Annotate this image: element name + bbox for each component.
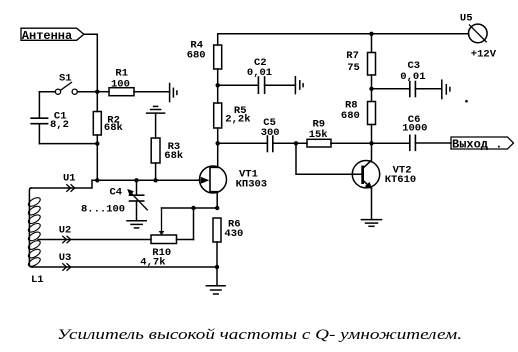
resistor R7: [346, 34, 375, 75]
wire R1 to ground: [134, 91, 170, 93]
transistor VT2: [352, 143, 416, 219]
node U1 tap chevrons: [67, 185, 75, 192]
wire R8 to collector node: [371, 125, 373, 144]
capacitor C6: [402, 114, 451, 150]
resistor R10 (potentiometer): [140, 208, 193, 269]
ground (right-facing) after R1: [170, 84, 177, 102]
node junction R6/U3/ground: [215, 265, 219, 269]
svg-text:КП303: КП303: [236, 178, 268, 190]
wire U1 step: [31, 180, 92, 188]
ground below C4: [127, 221, 146, 228]
wire C1 bottom to R2 bottom: [39, 143, 97, 145]
svg-text:Антенна: Антенна: [22, 29, 72, 43]
svg-text:C4: C4: [110, 187, 123, 199]
resistor R9: [307, 119, 331, 147]
capacitor C2: [218, 57, 296, 93]
stray dot: [465, 100, 468, 103]
ground (right-facing) after C3: [442, 80, 450, 98]
wire antenna to main vertical: [84, 34, 97, 91]
svg-text:68k: 68k: [104, 122, 123, 134]
wire source node line: [162, 207, 218, 209]
node junction R10 right leg: [191, 206, 195, 210]
svg-text:15k: 15k: [309, 129, 328, 141]
node junction C4/gate: [134, 178, 138, 182]
svg-text:680: 680: [341, 110, 360, 122]
resistor R8: [341, 99, 376, 124]
node junction source/R10 wire: [215, 206, 219, 210]
node junction C1/R2: [95, 141, 99, 145]
svg-text:2,2k: 2,2k: [225, 114, 250, 126]
capacitor C3: [372, 60, 442, 97]
svg-text:430: 430: [224, 228, 243, 240]
wire gate line: [92, 179, 200, 181]
switch S1: [39, 72, 97, 94]
ground (right-facing) after C2: [295, 77, 303, 94]
svg-text:75: 75: [347, 62, 360, 74]
resistor R4: [187, 39, 222, 69]
svg-text:U1: U1: [63, 173, 76, 185]
node U2 tap chevrons: [63, 236, 71, 243]
node junction S1/R1/R2: [95, 90, 99, 94]
wire base branch: [296, 143, 361, 174]
svg-text:680: 680: [187, 49, 206, 61]
svg-text:8...100: 8...100: [81, 204, 125, 216]
node junction R4/C2: [216, 83, 220, 87]
wire R5 to drain node: [217, 128, 219, 143]
resistor R6: [213, 218, 243, 267]
resistor R2: [93, 92, 123, 135]
connector U5: [460, 12, 497, 60]
svg-text:Усилитель высокой частоты с Q: Усилитель высокой частоты с Q- умножител…: [57, 327, 462, 343]
node junction main/gate: [95, 178, 99, 182]
node junction R7/R8/C3: [369, 87, 373, 91]
ground (up-facing) above R3: [147, 106, 165, 113]
capacitor C1: [31, 92, 69, 144]
wire R4 to R5: [217, 69, 219, 103]
wire R7 to R8: [371, 75, 373, 102]
node junction R3/gate: [153, 178, 157, 182]
svg-text:1000: 1000: [402, 122, 427, 134]
ground below VT2: [361, 220, 381, 227]
node Выход flag: [451, 137, 514, 152]
svg-text:R7: R7: [346, 50, 359, 62]
node junction C5/R9/base branch: [294, 141, 298, 145]
resistor R1: [97, 68, 134, 96]
resistor R3: [151, 113, 183, 180]
resistor R5: [214, 103, 251, 128]
svg-text:+12V: +12V: [471, 49, 497, 61]
svg-text:S1: S1: [59, 72, 72, 84]
wire U3 to ground node: [32, 266, 217, 268]
capacitor C5: [218, 117, 307, 152]
capacitor C4 (variable): [81, 180, 147, 221]
node junction R5/C5/drain: [216, 141, 220, 145]
svg-text:68k: 68k: [164, 150, 183, 162]
svg-text:100: 100: [111, 79, 130, 91]
svg-text:L1: L1: [31, 274, 44, 286]
svg-text:0,01: 0,01: [400, 71, 425, 83]
node junction rail/R7: [369, 32, 373, 36]
node junction R8/R9/C6/collector: [369, 141, 373, 145]
svg-text:КТ610: КТ610: [385, 174, 417, 186]
wire top rail to U5: [218, 34, 469, 45]
node Антенна flag: [21, 28, 84, 43]
svg-text:0,01: 0,01: [247, 67, 272, 79]
node U3 tap chevrons: [63, 264, 71, 271]
svg-text:U2: U2: [59, 225, 72, 237]
svg-text:300: 300: [261, 127, 280, 139]
wire R2 bottom to gate wire: [96, 135, 98, 180]
wire R9 to C6 node: [331, 142, 410, 144]
svg-text:U3: U3: [59, 252, 72, 264]
ground below R6: [206, 267, 225, 294]
svg-text:8,2: 8,2: [50, 119, 69, 131]
inductor L1: [27, 188, 44, 286]
svg-text:Выход .: Выход .: [452, 138, 502, 152]
svg-text:U5: U5: [460, 12, 473, 24]
wire U2 tap to R10: [38, 239, 151, 241]
transistor VT1: [200, 143, 268, 208]
